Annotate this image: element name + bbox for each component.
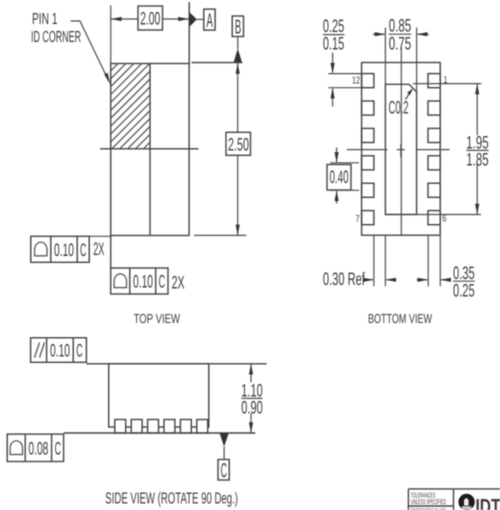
svg-text:0.10: 0.10 [133,272,153,292]
extension line bottom left to FCF1 [89,235,111,237]
dimension 2.50 line [237,63,239,235]
vertical centerline [400,48,402,235]
svg-text:C: C [159,272,165,292]
dimension 2.00 line [111,18,189,20]
datum C triangle [220,434,229,447]
dimension 0.85/0.75 right extension line [416,28,418,92]
svg-text:12: 12 [352,76,360,87]
dimension 1.10/0.90 vertical line [250,364,252,433]
svg-text:A: A [207,10,214,32]
extension line below body: body right edge [439,236,441,286]
datum C leader [223,447,225,460]
svg-text:0.75: 0.75 [389,34,411,54]
top view inner vertical line [149,64,151,236]
dimension 2.00 right arrowhead [178,17,189,21]
dimension 0.30 Ref right-pointing arrow [367,279,374,281]
extension line bottom right (2.50) [194,234,246,236]
svg-text:2X: 2X [172,273,185,293]
IDT logo globe [458,494,474,510]
svg-text:C: C [76,340,82,360]
center cross [397,149,405,151]
dimension 0.35/0.25 right-pointing arrow [417,279,428,281]
top view body outline [111,64,189,236]
left pads column (pins 12..7) [362,74,374,225]
dimension 0.25/0.15 up arrow [332,89,334,107]
pad 12 bottom extension line [328,87,361,89]
datum A triangle [190,12,197,27]
svg-text:0.08: 0.08 [28,438,48,458]
datum C box [218,460,229,481]
svg-text:6: 6 [442,214,446,225]
FCF1 profile-of-surface symbol [35,242,47,256]
FCF4 frame (profile 0.08 C) [7,434,63,461]
extension line left edge down to FCF2 [110,236,112,269]
exposed pad outline with chamfer [385,84,416,214]
dimension 2.50 bottom arrowhead [236,225,240,236]
svg-text:2.00: 2.00 [140,9,160,29]
datum A box [204,9,215,30]
dimension 1.10/0.90 stacked text [240,382,264,413]
svg-text:SIDE VIEW (ROTATE 90 Deg.): SIDE VIEW (ROTATE 90 Deg.) [105,491,238,508]
svg-text:2X: 2X [93,239,104,259]
svg-text:C: C [55,438,61,458]
svg-text:0.25: 0.25 [453,281,475,301]
svg-text:0.10: 0.10 [50,340,70,360]
dimension 2.00 left arrowhead [111,17,122,21]
dimension 0.85/0.75 right arrow [418,33,429,35]
svg-text:PIN 1: PIN 1 [32,11,58,28]
dimension 1.95/1.85 top line [413,83,481,85]
svg-text:7: 7 [356,214,360,225]
datum B leader [237,37,239,50]
svg-text:B: B [235,16,241,38]
svg-text:0.30 Ref: 0.30 Ref [323,269,366,289]
pin 1 ID hatched corner [33,64,229,149]
dimension 2.00 boxed text [138,6,163,30]
dimension 1.95/1.85 vertical line [476,84,478,215]
FCF3 frame (parallelism 0.10 C) [31,338,87,363]
dimension 1.95/1.85 bottom line [417,214,481,216]
horizontal centerline left segment [347,149,388,151]
dimension 2.50 top arrowhead [236,63,240,74]
svg-text:1.85: 1.85 [466,150,488,170]
datum B box [232,16,243,37]
FCF1 frame (profile 0.10 C) [31,236,89,262]
pad 12 top extension line [328,73,361,75]
dimension 0.85/0.75 left extension line [384,28,386,85]
svg-text:BOTTOM VIEW: BOTTOM VIEW [368,311,432,326]
extension line below body: exposed pad left edge [384,236,386,286]
FCF2 frame (profile 0.10 C) [111,268,168,294]
extension line top right (datum B / 2.50) [192,62,243,64]
svg-text:0.15: 0.15 [323,34,344,54]
svg-text:C: C [80,240,86,260]
dimension 0.40 boxed text [327,165,351,191]
svg-text:C: C [221,460,227,482]
horizontal centerline right segment [416,149,449,151]
extension line below body: pad6 inner edge [427,236,429,286]
svg-text:0.40: 0.40 [330,167,349,187]
bottom view body outline [362,63,441,236]
svg-text:0.90: 0.90 [241,397,262,417]
svg-text:C0.2: C0.2 [389,98,409,118]
FCF3 parallelism symbol [35,343,40,358]
dimension 0.85/0.75 left arrow [373,33,385,35]
side view seating plane line [64,432,256,434]
dimension 0.35/0.25 left-pointing arrow [441,279,450,281]
chamfer note C0.2 leader [406,90,413,100]
title block border [408,488,500,490]
pin 1 leader arrowhead [104,73,110,85]
dimension 0.40 down arrow [336,148,338,163]
FCF2 profile-of-surface symbol [114,274,126,288]
side view top surface line [86,363,266,365]
top view horizontal mold line [100,148,199,150]
extension line below body: pad7 inner edge [373,236,375,286]
svg-text:UNLESS SPECIFIED: UNLESS SPECIFIED [411,499,446,506]
dimension 1.95/1.85 stacked text [465,135,490,163]
extension line left (2.00) [110,6,112,64]
FCF4 profile-of-surface symbol [10,441,22,455]
pad 4 centerline extension [330,162,359,164]
side view pads [115,420,208,434]
pin 1 leader line [71,21,109,81]
svg-text:0.10: 0.10 [54,240,74,260]
extension line right (2.00 / datum A) [188,2,190,64]
dimension 0.25/0.15 down arrow [332,53,334,73]
dimension 0.40 up arrow [336,191,338,203]
dimension 2.50 boxed text [226,132,251,155]
svg-text:0.85: 0.85 [389,16,411,36]
pad 5 centerline extension [330,189,359,191]
svg-text:IDT: IDT [476,496,500,510]
datum A leader [197,18,204,20]
dimension 0.30 Ref left-pointing arrow [386,279,396,281]
svg-text:TOP VIEW: TOP VIEW [134,311,181,326]
side view body outline [109,364,209,427]
right pads column (pins 1..6) [428,74,440,225]
svg-text:2.50: 2.50 [228,134,249,154]
svg-text:ID CORNER: ID CORNER [31,29,81,46]
datum B triangle [234,49,242,63]
